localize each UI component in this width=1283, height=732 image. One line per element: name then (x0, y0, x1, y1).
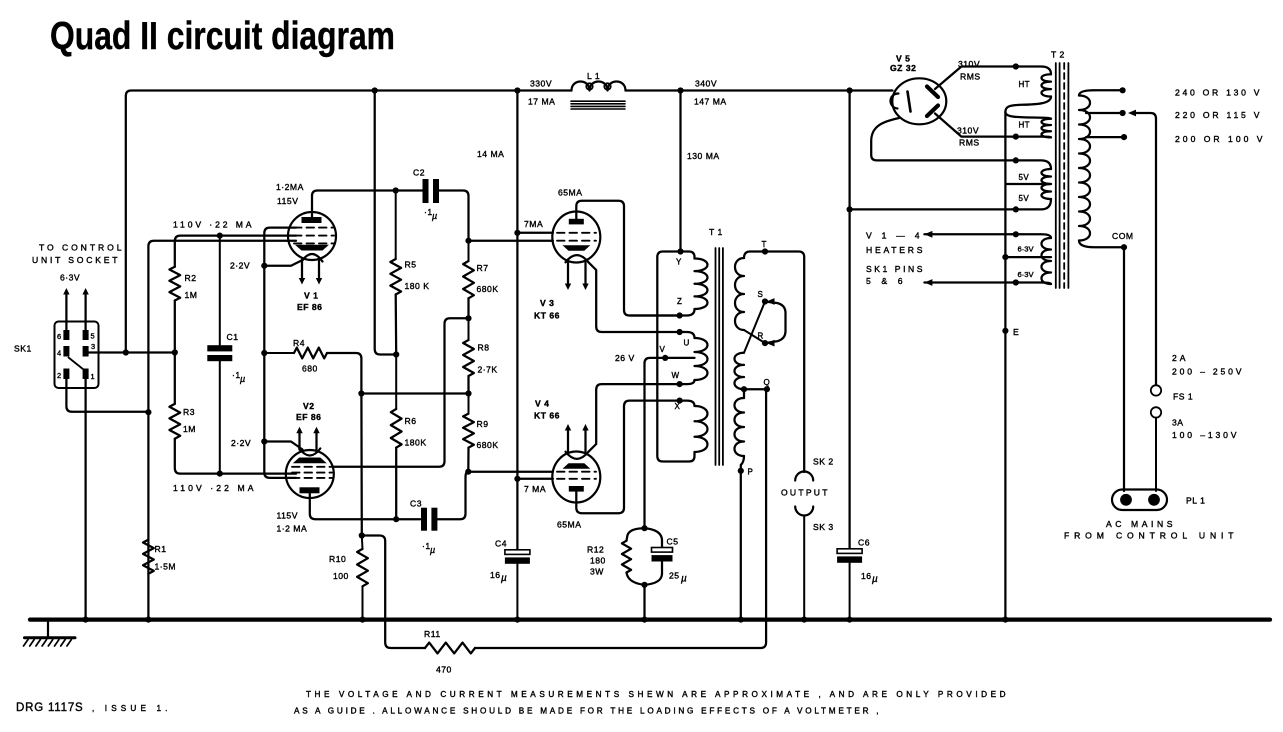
svg-text:KT 66: KT 66 (534, 411, 560, 421)
tube V4 g1 dashes (557, 471, 596, 473)
node dot C1 bottom junction (217, 471, 223, 477)
resistor R4 (264, 352, 294, 354)
node dot pin2/R1 junction (145, 409, 151, 415)
SK1 pin 1 (83, 369, 89, 380)
wire R7 bottom (467, 298, 469, 318)
svg-text:T 1: T 1 (709, 227, 723, 237)
svg-text:OUTPUT: OUTPUT (781, 488, 828, 498)
svg-text:115V: 115V (277, 511, 298, 521)
ground bus (30, 617, 1270, 621)
wire V5 heater loop to 5V winding (871, 118, 1012, 160)
svg-text:EF 86: EF 86 (297, 302, 322, 312)
tube V5 envelope (892, 78, 946, 124)
wire mains select to fuse (1133, 113, 1157, 385)
svg-text:µ: µ (240, 374, 245, 384)
node dot tap P (738, 468, 744, 474)
svg-text:16: 16 (490, 570, 501, 580)
socket SK2 jack (795, 472, 813, 481)
wire SK1 pin1 to ground (84, 379, 86, 619)
svg-text:130 MA: 130 MA (687, 151, 720, 161)
node dot tap X (677, 398, 683, 404)
choke L1 coil (572, 82, 626, 91)
earth symbol (47, 621, 49, 637)
tube V4 g2 dashes (557, 478, 596, 480)
capacitor C5 (645, 528, 663, 547)
plug PL1 body (1112, 490, 1167, 511)
tube V3 cathode dome (566, 255, 589, 262)
node dot R12/C5 top (641, 525, 647, 531)
wire 110V screen line V1 (175, 236, 296, 267)
wire P to ground (740, 471, 742, 619)
svg-text:200 OR 100 V: 200 OR 100 V (1175, 134, 1263, 144)
svg-text:7MA: 7MA (524, 219, 543, 229)
SK1 heater arrow pin6 6.3V (65, 292, 67, 330)
node dot left-rail / pin3 wire (123, 349, 129, 355)
svg-text:C1: C1 (227, 332, 239, 342)
svg-text:4: 4 (57, 349, 61, 358)
node dot tap V (662, 355, 668, 361)
svg-text:KT 66: KT 66 (534, 311, 560, 321)
tube V4 cathode lead to W (589, 384, 680, 452)
svg-text:R6: R6 (405, 416, 417, 426)
node dot ground P (738, 617, 744, 623)
svg-text:RMS: RMS (960, 72, 981, 82)
svg-text:Z: Z (677, 297, 682, 306)
svg-text:2 A: 2 A (1172, 353, 1186, 363)
node dot COM tap (1121, 244, 1127, 250)
node dot C6/E branch (847, 87, 853, 93)
transformer T2 core (1055, 63, 1057, 288)
wire 6.3V heater line lower (924, 281, 1012, 283)
svg-text:W: W (672, 371, 680, 380)
svg-text:R1: R1 (155, 544, 167, 554)
tube V3 g2 dashes (557, 232, 596, 234)
wire C6 branch (848, 91, 850, 549)
wire suppressor loop V1 (264, 228, 296, 353)
choke L1 core lines (571, 100, 625, 102)
svg-text:V 4: V 4 (535, 399, 549, 409)
wire V3 g1 line (469, 240, 553, 242)
tube V4 envelope (552, 452, 600, 503)
wire V3 g2 line (517, 232, 553, 234)
node dot tap R (762, 340, 768, 346)
svg-text:R4: R4 (293, 338, 305, 348)
node dot HT tap lower (1013, 134, 1019, 140)
SK1 pin 5 (83, 330, 89, 340)
resistor R7 (468, 241, 470, 261)
T2 6.3V winding mid tap (1005, 256, 1051, 258)
svg-text:X: X (675, 402, 681, 411)
wire 130MA feed to Y (679, 91, 681, 252)
svg-text:SK 3: SK 3 (813, 522, 834, 532)
tube V3 cathode lead to U (589, 262, 680, 332)
svg-text:P: P (748, 468, 753, 477)
svg-text:220 OR 115 V: 220 OR 115 V (1175, 110, 1260, 120)
wire SK1 pin2 lead (66, 379, 148, 412)
svg-text:µ: µ (432, 211, 437, 221)
node dot tap T (762, 248, 768, 254)
svg-text:1·2MA: 1·2MA (276, 182, 304, 192)
T1 secondary winding top section (744, 252, 765, 259)
node dot tap Y (677, 248, 683, 254)
svg-text:310V: 310V (958, 59, 980, 69)
svg-text:C3: C3 (410, 499, 422, 509)
svg-text:1M: 1M (185, 290, 198, 300)
svg-text:µ: µ (872, 574, 878, 585)
resistor R9 (468, 394, 470, 414)
node dot 6.3V centre tap (1002, 254, 1008, 260)
svg-text:5 & 6: 5 & 6 (866, 276, 903, 286)
svg-text:2·2V: 2·2V (231, 438, 251, 448)
wire V4 g2 line (517, 478, 553, 480)
T2 HT winding lower (1005, 112, 1051, 119)
plug PL1 pin left (1120, 494, 1132, 506)
node dot HT feed for R5/R6 (372, 87, 378, 93)
node dot R9 / C3 / V4 grid (465, 469, 471, 475)
socket SK1 body (55, 322, 99, 389)
svg-text:V 3: V 3 (540, 298, 554, 308)
svg-text:1·2 MA: 1·2 MA (277, 524, 308, 534)
node dot mains tap 220 (1120, 110, 1126, 116)
T1 primary winding section X-bottom (680, 401, 695, 406)
tube V2 grid g3 dashes (292, 477, 332, 479)
svg-text:GZ 32: GZ 32 (890, 63, 916, 73)
wire suppressor loop V2 (264, 442, 296, 478)
svg-text:L 1: L 1 (587, 71, 600, 81)
tube V2 grid g2 dashes (292, 472, 332, 474)
svg-text:2·2V: 2·2V (230, 261, 250, 271)
node dot V1 anode / C2 / R5 (393, 187, 399, 193)
wire R11 loop (362, 536, 425, 649)
tube V5 anode plate upper (927, 87, 938, 98)
svg-text:C6: C6 (858, 538, 870, 548)
svg-text:470: 470 (436, 665, 452, 675)
T2 HT centre tap (1005, 97, 1051, 113)
node dot mains tap 200 (1121, 134, 1127, 140)
svg-text:T 2: T 2 (1051, 50, 1065, 60)
node dot R12/C5 bottom (641, 582, 647, 588)
wire HT rail 330V section with corner down to left rail (126, 91, 572, 353)
svg-text:Quad II circuit diagram: Quad II circuit diagram (50, 15, 395, 58)
svg-text:C4: C4 (495, 539, 507, 549)
svg-text:µ: µ (430, 545, 435, 555)
svg-text:SK 2: SK 2 (813, 457, 834, 467)
node dot 14MA screen feed (514, 87, 520, 93)
node dot ground C6 (847, 617, 853, 623)
node dot ground bias (641, 617, 647, 623)
wire R3 bottom curve into lower 110V screen line V2 (175, 439, 296, 474)
svg-text:V 1 — 4: V 1 — 4 (866, 231, 920, 241)
tube V4 anode (569, 486, 584, 492)
wire Z line (630, 314, 680, 316)
svg-text:UNIT SOCKET: UNIT SOCKET (32, 255, 118, 265)
node dot 5V tap lower (1013, 206, 1019, 212)
svg-text:26 V: 26 V (615, 353, 635, 363)
svg-text:R10: R10 (329, 554, 346, 564)
svg-text:HEATERS: HEATERS (866, 245, 923, 255)
capacitor C3 (421, 508, 427, 531)
svg-text:R3: R3 (183, 407, 195, 417)
SK1 switch lever (69, 358, 84, 370)
node dot ground SK3 (801, 617, 807, 623)
T1 primary winding section U-W (680, 332, 695, 338)
svg-text:V: V (660, 345, 666, 354)
node dot 2.2V V1 cathode (261, 263, 267, 269)
tube V1 grid g1 dashes (294, 242, 334, 244)
tube V1 heater arrows (301, 260, 303, 281)
node dot tap U (677, 329, 683, 335)
node dot ground R10 (359, 617, 365, 623)
node dot earth point E (1002, 328, 1008, 334)
wire grid column of V1 (R1 top) (148, 241, 296, 619)
svg-text:µ: µ (501, 573, 507, 584)
svg-text:V2: V2 (303, 401, 315, 411)
resistor R11 (425, 643, 475, 654)
svg-text:180: 180 (590, 556, 606, 566)
T1 secondary winding bottom section (743, 389, 745, 398)
tube V2 cathode plate (293, 458, 327, 464)
wire V5 lower anode to HT winding (935, 114, 1012, 137)
node dot R10 top / R11 (359, 532, 365, 538)
node dot ground T2 CT (1002, 617, 1008, 623)
T1 primary winding section Y-Z (681, 252, 695, 259)
svg-text:FS 1: FS 1 (1173, 392, 1193, 402)
SK1 heater arrow pin5 6.3V (84, 292, 86, 330)
wire HT rail 340V section (choke to V5 rectifier) (626, 89, 893, 91)
resistor R12 (627, 528, 645, 541)
svg-text:R5: R5 (405, 260, 417, 270)
wire V1 cathode lead (264, 260, 302, 266)
svg-text:340V: 340V (695, 79, 717, 89)
svg-text:6: 6 (57, 332, 61, 341)
svg-text:µ: µ (681, 574, 687, 585)
svg-text:R8: R8 (478, 343, 490, 353)
capacitor C2 (423, 179, 429, 203)
svg-text:680: 680 (302, 364, 318, 374)
svg-text:65MA: 65MA (557, 520, 581, 530)
svg-text:5V: 5V (1019, 194, 1030, 203)
node dot R5/R6 junction (393, 351, 399, 357)
tube V3 heater arrows (567, 262, 569, 286)
node dot secondary mid junction (741, 386, 747, 392)
tube V3 anode (569, 219, 584, 225)
tube V2 cathode dome (299, 449, 320, 456)
node dot V4 g2 (514, 476, 520, 482)
SK1 pin 4 (63, 346, 69, 357)
wire SK1 pin3 to R2/R3 junction (89, 351, 175, 353)
node dot tap W (677, 381, 683, 387)
node dot R2/R3 junction (172, 349, 178, 355)
node dot tap Z (677, 312, 683, 318)
node dot C1 top junction (217, 233, 223, 239)
resistor R1 (143, 540, 154, 574)
tube V5 cathode (890, 93, 898, 108)
svg-text:HT: HT (1019, 80, 1030, 89)
tube V3 g1 dashes (557, 240, 596, 242)
wire V tap into winding (665, 357, 694, 359)
svg-text:R7: R7 (477, 263, 489, 273)
svg-text:100 –130V: 100 –130V (1172, 430, 1237, 440)
tube V1 anode (302, 217, 322, 223)
S-R strap link (765, 302, 786, 344)
svg-text:, ISSUE 1.: , ISSUE 1. (92, 704, 168, 713)
T1 primary bracket (Y to bottom of winding) (657, 252, 694, 462)
wire V4 g1 line (468, 471, 553, 473)
svg-text:R2: R2 (185, 273, 197, 283)
wire R9 bottom (467, 448, 469, 472)
svg-text:6·3V: 6·3V (1018, 245, 1035, 254)
svg-text:147 MA: 147 MA (694, 97, 727, 107)
node dot R8/R9 junction (465, 390, 471, 396)
svg-text:DRG 1117S: DRG 1117S (16, 702, 84, 714)
svg-text:T: T (762, 240, 767, 249)
wire R10 column (360, 394, 363, 536)
node dot C2 / V3 grid / R7 top (465, 238, 471, 244)
svg-text:16: 16 (861, 571, 872, 581)
wire 6.3V heater line upper (924, 233, 1012, 235)
node dot 6.3V tap upper (1013, 231, 1019, 237)
svg-text:S: S (758, 290, 763, 299)
svg-text:PL 1: PL 1 (1186, 496, 1205, 506)
wire R5 bottom (395, 295, 398, 355)
svg-text:1M: 1M (183, 424, 196, 434)
svg-text:6·3V: 6·3V (1018, 270, 1035, 279)
transformer T1 core (715, 248, 717, 465)
node dot 2.2V V2 cathode (261, 438, 267, 444)
svg-text:115V: 115V (277, 196, 298, 206)
fuse FS1 (1151, 385, 1161, 395)
node dot tap S (762, 298, 768, 304)
socket SK3 jack (795, 507, 813, 516)
node dot V3 g2 (514, 230, 520, 236)
svg-text:2·7K: 2·7K (478, 365, 498, 375)
svg-text:RMS: RMS (959, 138, 980, 148)
T1 secondary winding middle section (734, 353, 744, 390)
wire R3 top (174, 353, 176, 404)
T1 secondary crossover S (744, 330, 765, 343)
svg-text:3: 3 (91, 342, 95, 351)
wire R8/R9 junction to R4 corner (361, 392, 468, 394)
wire bias network to ground (643, 585, 645, 619)
wire to Q tap (744, 388, 767, 390)
svg-text:AC MAINS: AC MAINS (1106, 519, 1173, 529)
tube V2 grid g1 dashes (292, 466, 332, 468)
SK1 pin 6 (63, 330, 69, 340)
svg-text:110V ·22 MA: 110V ·22 MA (173, 483, 254, 493)
svg-text:110V ·22 MA: 110V ·22 MA (173, 220, 252, 230)
node dot 5V tap upper (1013, 157, 1019, 163)
svg-text:HT: HT (1019, 121, 1030, 130)
wire R8 bottom (467, 376, 469, 394)
svg-text:Q: Q (764, 378, 770, 387)
node dot HT tap upper (1013, 63, 1019, 69)
resistor R10 (361, 536, 364, 549)
svg-text:V 1: V 1 (304, 291, 318, 301)
node dot R4 left junction (261, 350, 267, 356)
svg-text:14 MA: 14 MA (477, 149, 504, 159)
svg-text:330V: 330V (530, 79, 552, 89)
wire HT feed to anode loads (375, 91, 397, 355)
node dot R7/R8 junction (V2 grid) (465, 315, 471, 321)
T2 primary winding (1079, 90, 1123, 95)
svg-text:680K: 680K (477, 440, 499, 450)
tube V5 anode plate lower (927, 106, 938, 117)
svg-text:25: 25 (669, 571, 680, 581)
wire V2 g1 feedback line (334, 318, 469, 467)
svg-text:FROM CONTROL UNIT: FROM CONTROL UNIT (1064, 531, 1234, 541)
node dot R4 corner / R10 (358, 390, 364, 396)
wire R2 bottom to junction (174, 301, 176, 353)
tube V2 heater arrows (298, 431, 300, 450)
tube V1 cathode dome (302, 254, 323, 262)
svg-text:100: 100 (333, 571, 349, 581)
svg-text:5V: 5V (1019, 173, 1030, 182)
svg-text:COM: COM (1112, 231, 1134, 241)
svg-text:SK1: SK1 (14, 344, 32, 354)
wire R6 bottom (395, 448, 397, 520)
svg-text:TO CONTROL: TO CONTROL (39, 243, 122, 253)
tube V2 anode (300, 487, 320, 493)
SK1 pin 3 (83, 346, 89, 357)
svg-text:7 MA: 7 MA (524, 484, 546, 494)
svg-text:180K: 180K (405, 438, 427, 448)
resistor R5 (395, 191, 397, 260)
tube V1 grid g3 dashes (294, 227, 334, 229)
capacitor C4 (505, 550, 530, 555)
svg-text:3W: 3W (590, 567, 604, 577)
node dot ground R1 (145, 617, 151, 623)
tube V4 beam plate (563, 463, 591, 469)
svg-text:3A: 3A (1172, 418, 1184, 428)
svg-text:EF 86: EF 86 (296, 412, 321, 422)
wire T2 centre tap / earth line (1004, 112, 1006, 619)
svg-text:1·5M: 1·5M (155, 562, 177, 572)
wire cathode column to V2 (263, 353, 265, 442)
svg-text:240 OR 130 V: 240 OR 130 V (1175, 88, 1260, 98)
resistor R8 (468, 318, 470, 340)
node dot ground C4 (514, 617, 520, 623)
plug PL1 pin right (1148, 494, 1160, 506)
tube V3 beam plate (563, 245, 591, 251)
T2 primary tap 220 (1086, 112, 1123, 114)
svg-text:2: 2 (57, 371, 61, 380)
capacitor C6 (837, 549, 862, 554)
node dot ground pin1 (83, 617, 89, 623)
T2 primary tap 200 (1086, 136, 1124, 138)
tube V4 cathode dome (566, 452, 589, 459)
resistor R3 (169, 404, 180, 439)
svg-text:310V: 310V (957, 126, 979, 136)
node dot mains tap 240 (1120, 87, 1126, 93)
svg-text:SK1 PINS: SK1 PINS (866, 264, 923, 274)
wire 14MA screen feed column (516, 91, 518, 550)
svg-text:V 5: V 5 (896, 54, 910, 64)
svg-text:U: U (684, 339, 690, 348)
svg-text:680K: 680K (477, 284, 499, 294)
wire V2 cathode lead (264, 442, 302, 450)
tube V1 cathode plate (295, 245, 329, 251)
tube V1 envelope (288, 212, 336, 260)
svg-text:65MA: 65MA (558, 188, 582, 198)
T2 HT winding upper (1012, 67, 1051, 75)
node dot V2 anode line / R6 (393, 516, 399, 522)
wire COM to PL1 (1123, 247, 1125, 491)
svg-text:6·3V: 6·3V (60, 273, 80, 283)
T2 5V winding (1012, 160, 1051, 169)
tube V4 heater arrows (567, 428, 569, 452)
svg-text:Y: Y (676, 258, 682, 267)
svg-text:5: 5 (91, 332, 95, 341)
